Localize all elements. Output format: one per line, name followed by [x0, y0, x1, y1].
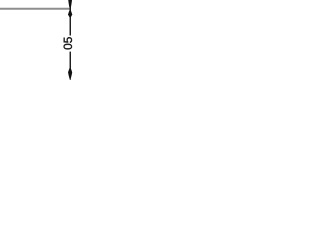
wire: vertical segment above label	[69, 0, 71, 36]
value label 50 (rotated 90deg CCW, drawn as Liberation Sans outlines: 5 on top, 0 below)	[64, 37, 72, 49]
wire: vertical segment below label	[69, 52, 71, 73]
arrowhead pointing down into node (kite shape, cropped at top)	[68, 0, 72, 9]
arrowhead pointing up to node below wire (kite shape)	[68, 9, 72, 17]
wire: horizontal net	[0, 8, 71, 10]
arrowhead pointing down at bottom (kite shape)	[68, 68, 72, 80]
